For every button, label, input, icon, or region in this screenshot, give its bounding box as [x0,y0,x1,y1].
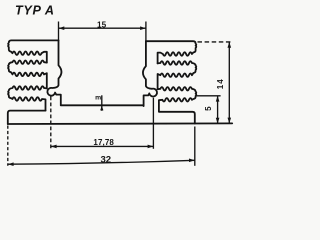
right fin 2 (middle, serrated) [158,61,197,89]
svg-text:17,78: 17,78 [93,138,114,147]
base plate left: top surface and left edge [8,111,46,125]
svg-text:15: 15 [97,20,107,29]
left channel wall with clip groove and screw boss [47,40,61,105]
dim 15 left extension line [58,22,60,41]
base plate right: top surface and right edge [159,112,195,124]
dim 14 top arrowhead [228,42,232,48]
dim 17,78 right arrowhead [148,145,154,149]
dim 15 left arrowhead [59,26,65,30]
dim 5 top arrowhead [216,96,220,102]
dim 14 dimension line [228,42,230,124]
channel floor [61,104,144,106]
dim 32 dimension line [8,160,195,164]
left fin 3 (bottom, serrated) [8,86,47,110]
dim 32 left extension line (dashed) [7,126,9,166]
left fin 1 (top, serrated) [8,40,58,62]
dim 5 extension line [196,95,220,97]
dim 15 right extension line [145,22,147,43]
dim 32 left arrowhead [8,162,14,166]
base plate bottom line (extends right as extension for dims 14 and 5) [8,122,232,125]
dim 17,78 right extension line (from right screw boss) [152,98,154,149]
dim 5 bottom arrowhead [216,118,220,124]
dim 17,78 dimension line [51,145,154,147]
svg-text:14: 14 [216,78,225,89]
dim 32 right extension line [194,127,196,166]
svg-text:5: 5 [204,106,213,111]
right fin 1 (top, serrated) [146,41,196,63]
dim 15 dimension line [59,27,146,29]
left fin 2 (middle, serrated) [8,61,47,89]
dim m arrowhead [100,106,103,111]
svg-text:TYP A: TYP A [15,4,55,18]
dim 5 dimension line [217,96,219,124]
dim 32 right arrowhead [189,159,195,163]
left fin block [8,40,61,110]
svg-text:m: m [95,94,101,101]
right fin 3 (bottom, serrated) [158,87,197,111]
dim 14 bottom arrowhead [228,118,232,124]
right fin block (mirrored) [143,41,196,111]
dim 17,78 left extension line (dashed, from left screw boss) [50,97,52,149]
dim 17,78 left arrowhead [51,145,57,149]
right channel wall with clip groove and screw boss [143,41,157,106]
dim 14 top extension line (dashed) [198,41,233,43]
svg-text:32: 32 [100,154,111,165]
dim 15 right arrowhead [140,26,146,30]
dim m leader line [101,95,103,111]
